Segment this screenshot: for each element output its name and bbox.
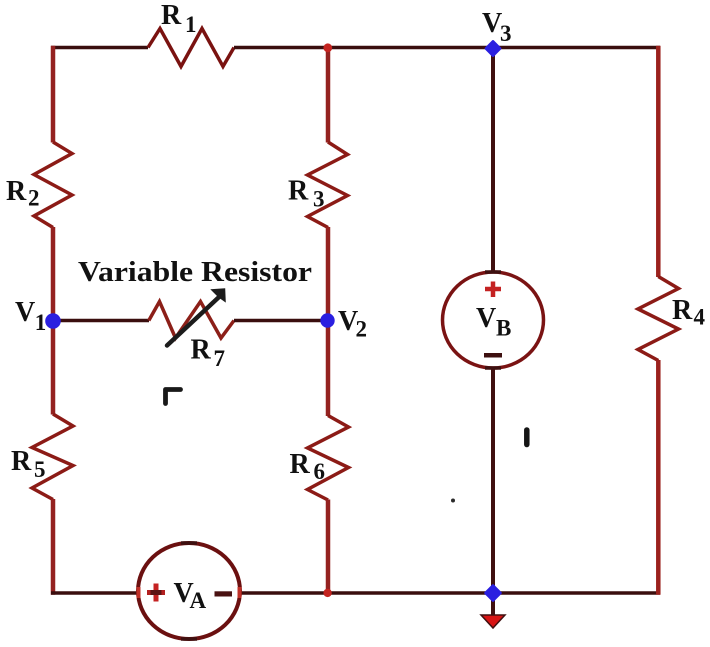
wire middle column lower xyxy=(326,500,331,594)
wire left column lower xyxy=(51,499,56,595)
svg-text:R: R xyxy=(161,0,182,31)
svg-text:R: R xyxy=(672,295,693,326)
wire middle column upper xyxy=(326,48,331,143)
node bottom (ground) xyxy=(485,585,500,600)
voltage source VB xyxy=(443,272,544,368)
svg-text:1: 1 xyxy=(35,310,47,335)
node V2 xyxy=(320,313,334,327)
variable resistor R7 xyxy=(149,302,234,339)
svg-text:1: 1 xyxy=(185,12,197,37)
wire right column lower xyxy=(656,360,661,595)
svg-text:3: 3 xyxy=(500,21,512,46)
voltage source VA xyxy=(138,543,240,639)
svg-text:5: 5 xyxy=(34,457,46,482)
corner mark (gamma) xyxy=(166,390,181,404)
wire V1 to R7 xyxy=(53,319,149,323)
node junction dot top xyxy=(323,43,332,52)
wire left column middle xyxy=(51,227,56,415)
svg-text:6: 6 xyxy=(314,459,326,484)
wire VB column lower xyxy=(491,368,495,593)
svg-text:4: 4 xyxy=(694,305,706,330)
svg-text:B: B xyxy=(496,316,511,341)
svg-text:A: A xyxy=(190,588,207,613)
node V1 xyxy=(45,313,61,329)
VA plus sign xyxy=(154,584,159,602)
node junction dot bottom xyxy=(323,589,331,597)
VB plus sign xyxy=(491,282,496,298)
wire bottom-right segment xyxy=(240,591,660,595)
R7 arrow shaft xyxy=(167,298,219,346)
wire VB column upper xyxy=(491,48,495,283)
VB minus sign xyxy=(484,353,502,358)
svg-text:7: 7 xyxy=(214,346,226,371)
resistor R3 xyxy=(308,142,348,228)
current label I xyxy=(524,430,530,445)
svg-text:V: V xyxy=(15,297,35,328)
svg-text:R: R xyxy=(288,176,309,207)
wire middle column mid xyxy=(326,227,331,416)
wire bottom-left segment xyxy=(51,591,138,595)
R7 arrowhead xyxy=(210,288,226,302)
VA minus sign xyxy=(215,591,233,596)
wire right column upper xyxy=(656,46,661,277)
resistor R6 xyxy=(308,416,349,501)
resistor R5 xyxy=(32,414,73,500)
svg-text:R: R xyxy=(6,176,27,207)
svg-text:V: V xyxy=(476,303,496,334)
resistor R1 xyxy=(148,29,234,67)
wire top-left segment xyxy=(51,46,148,50)
svg-text:R: R xyxy=(290,449,311,480)
resistor R4 xyxy=(638,277,679,361)
svg-text:Variable Resistor: Variable Resistor xyxy=(78,257,312,288)
node V3 xyxy=(486,41,500,55)
stray dot xyxy=(451,499,455,503)
ground arrow xyxy=(481,615,505,628)
wire top-right segment xyxy=(234,46,660,50)
wire left column upper xyxy=(51,46,56,143)
ground stem xyxy=(491,593,495,615)
svg-text:2: 2 xyxy=(356,317,368,342)
svg-text:3: 3 xyxy=(313,187,325,212)
svg-text:R: R xyxy=(191,335,212,366)
wire R7 to V2 xyxy=(234,319,328,323)
svg-text:2: 2 xyxy=(28,186,40,211)
resistor R2 xyxy=(34,142,72,228)
svg-text:R: R xyxy=(11,446,32,477)
